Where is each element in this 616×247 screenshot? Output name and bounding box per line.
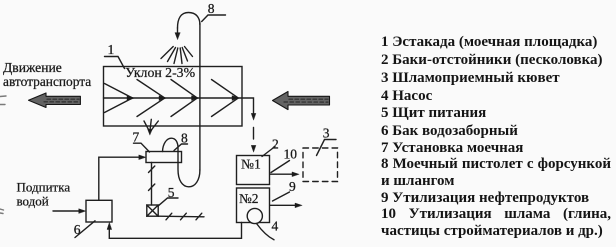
svg-text:Движение: Движение xyxy=(3,60,62,75)
hanging gun mini-spray on platform edge xyxy=(144,119,158,135)
svg-text:водой: водой xyxy=(17,193,49,208)
label 10 with leader xyxy=(271,147,297,173)
drain center line in platform xyxy=(104,97,243,99)
flow arrowhead 2 on center line xyxy=(159,96,167,101)
slope chevron set 1 xyxy=(105,84,133,113)
sludge ditch 3 (шламоприемный кювет, dashed) xyxy=(303,148,338,182)
power panel box 5 (щит питания) xyxy=(147,205,158,216)
drain wire platform to tank No1 xyxy=(242,98,254,115)
svg-text:8: 8 xyxy=(208,1,215,16)
traffic block arrow (left, gray) xyxy=(29,93,81,108)
svg-text:7: 7 xyxy=(133,130,140,145)
hose loop from unit to pipe xyxy=(163,138,200,187)
platform box 1 (эстакада / моечная площадка) xyxy=(104,67,243,127)
label 6 with leader xyxy=(74,221,95,238)
label 2 with leader xyxy=(262,136,279,156)
hose pipe vertical (to spray) xyxy=(199,23,201,170)
sludge arrow 10 to ditch xyxy=(270,173,295,175)
hose top arc xyxy=(178,13,200,29)
svg-text:Подпитка: Подпитка xyxy=(17,179,71,194)
spray down-arrow xyxy=(177,28,179,34)
makeup water arrow into tank 6 xyxy=(53,210,81,212)
svg-text:3: 3 xyxy=(323,126,330,141)
label 9 with leader xyxy=(273,179,297,201)
svg-text:№2: №2 xyxy=(239,191,258,206)
water feed wire from tank 6 to unit 7 xyxy=(99,157,141,200)
return wire pump to tank 6 xyxy=(109,223,241,239)
slope chevron set 4 xyxy=(212,80,239,117)
slope chevron set 3 xyxy=(171,80,197,117)
label 3 with leader xyxy=(317,126,337,156)
svg-text:1: 1 xyxy=(108,42,115,57)
label 7 with leader xyxy=(133,130,150,153)
label 1 with leader xyxy=(105,42,125,69)
svg-text:6: 6 xyxy=(74,222,81,237)
svg-text:№1: №1 xyxy=(241,156,261,171)
svg-text:10: 10 xyxy=(284,147,298,162)
flow arrowhead 1 on center line xyxy=(127,96,135,101)
label 8 (middle) with leader xyxy=(174,131,188,151)
svg-text:2: 2 xyxy=(272,136,279,151)
settling tank No1 (бак-отстойник) xyxy=(237,156,270,185)
power cable (horizontal) with cross marks xyxy=(158,215,204,218)
flow arrowhead 3 on center line xyxy=(192,96,200,101)
label 4 with leader xyxy=(257,219,279,240)
svg-text:8: 8 xyxy=(181,131,188,146)
traffic block arrow (right, gray) xyxy=(273,92,330,110)
settling tank No2 (бак-отстойник) xyxy=(237,188,270,223)
power cable (vertical) unit 7 to panel 5 xyxy=(151,163,153,206)
spray fan (форсунка) xyxy=(161,47,193,64)
flow arrowhead 4 on center line xyxy=(232,96,240,101)
slope chevron set 2 xyxy=(137,80,165,117)
svg-text:4: 4 xyxy=(272,219,279,234)
scan mark left edge xyxy=(0,96,6,214)
pump circle 4 (насос) xyxy=(247,208,262,223)
svg-text:Уклон 2-3%: Уклон 2-3% xyxy=(125,65,195,80)
water tank box 6 (бак водозаборный) xyxy=(86,200,112,222)
label 8 (top) with leader xyxy=(202,1,226,22)
svg-text:автотранспорта: автотранспорта xyxy=(3,74,91,89)
washing unit rect 7 (установка моечная) xyxy=(146,152,182,163)
label 5 with leader xyxy=(158,185,178,206)
oil products arrow 9 xyxy=(270,204,298,206)
svg-text:9: 9 xyxy=(289,179,296,194)
